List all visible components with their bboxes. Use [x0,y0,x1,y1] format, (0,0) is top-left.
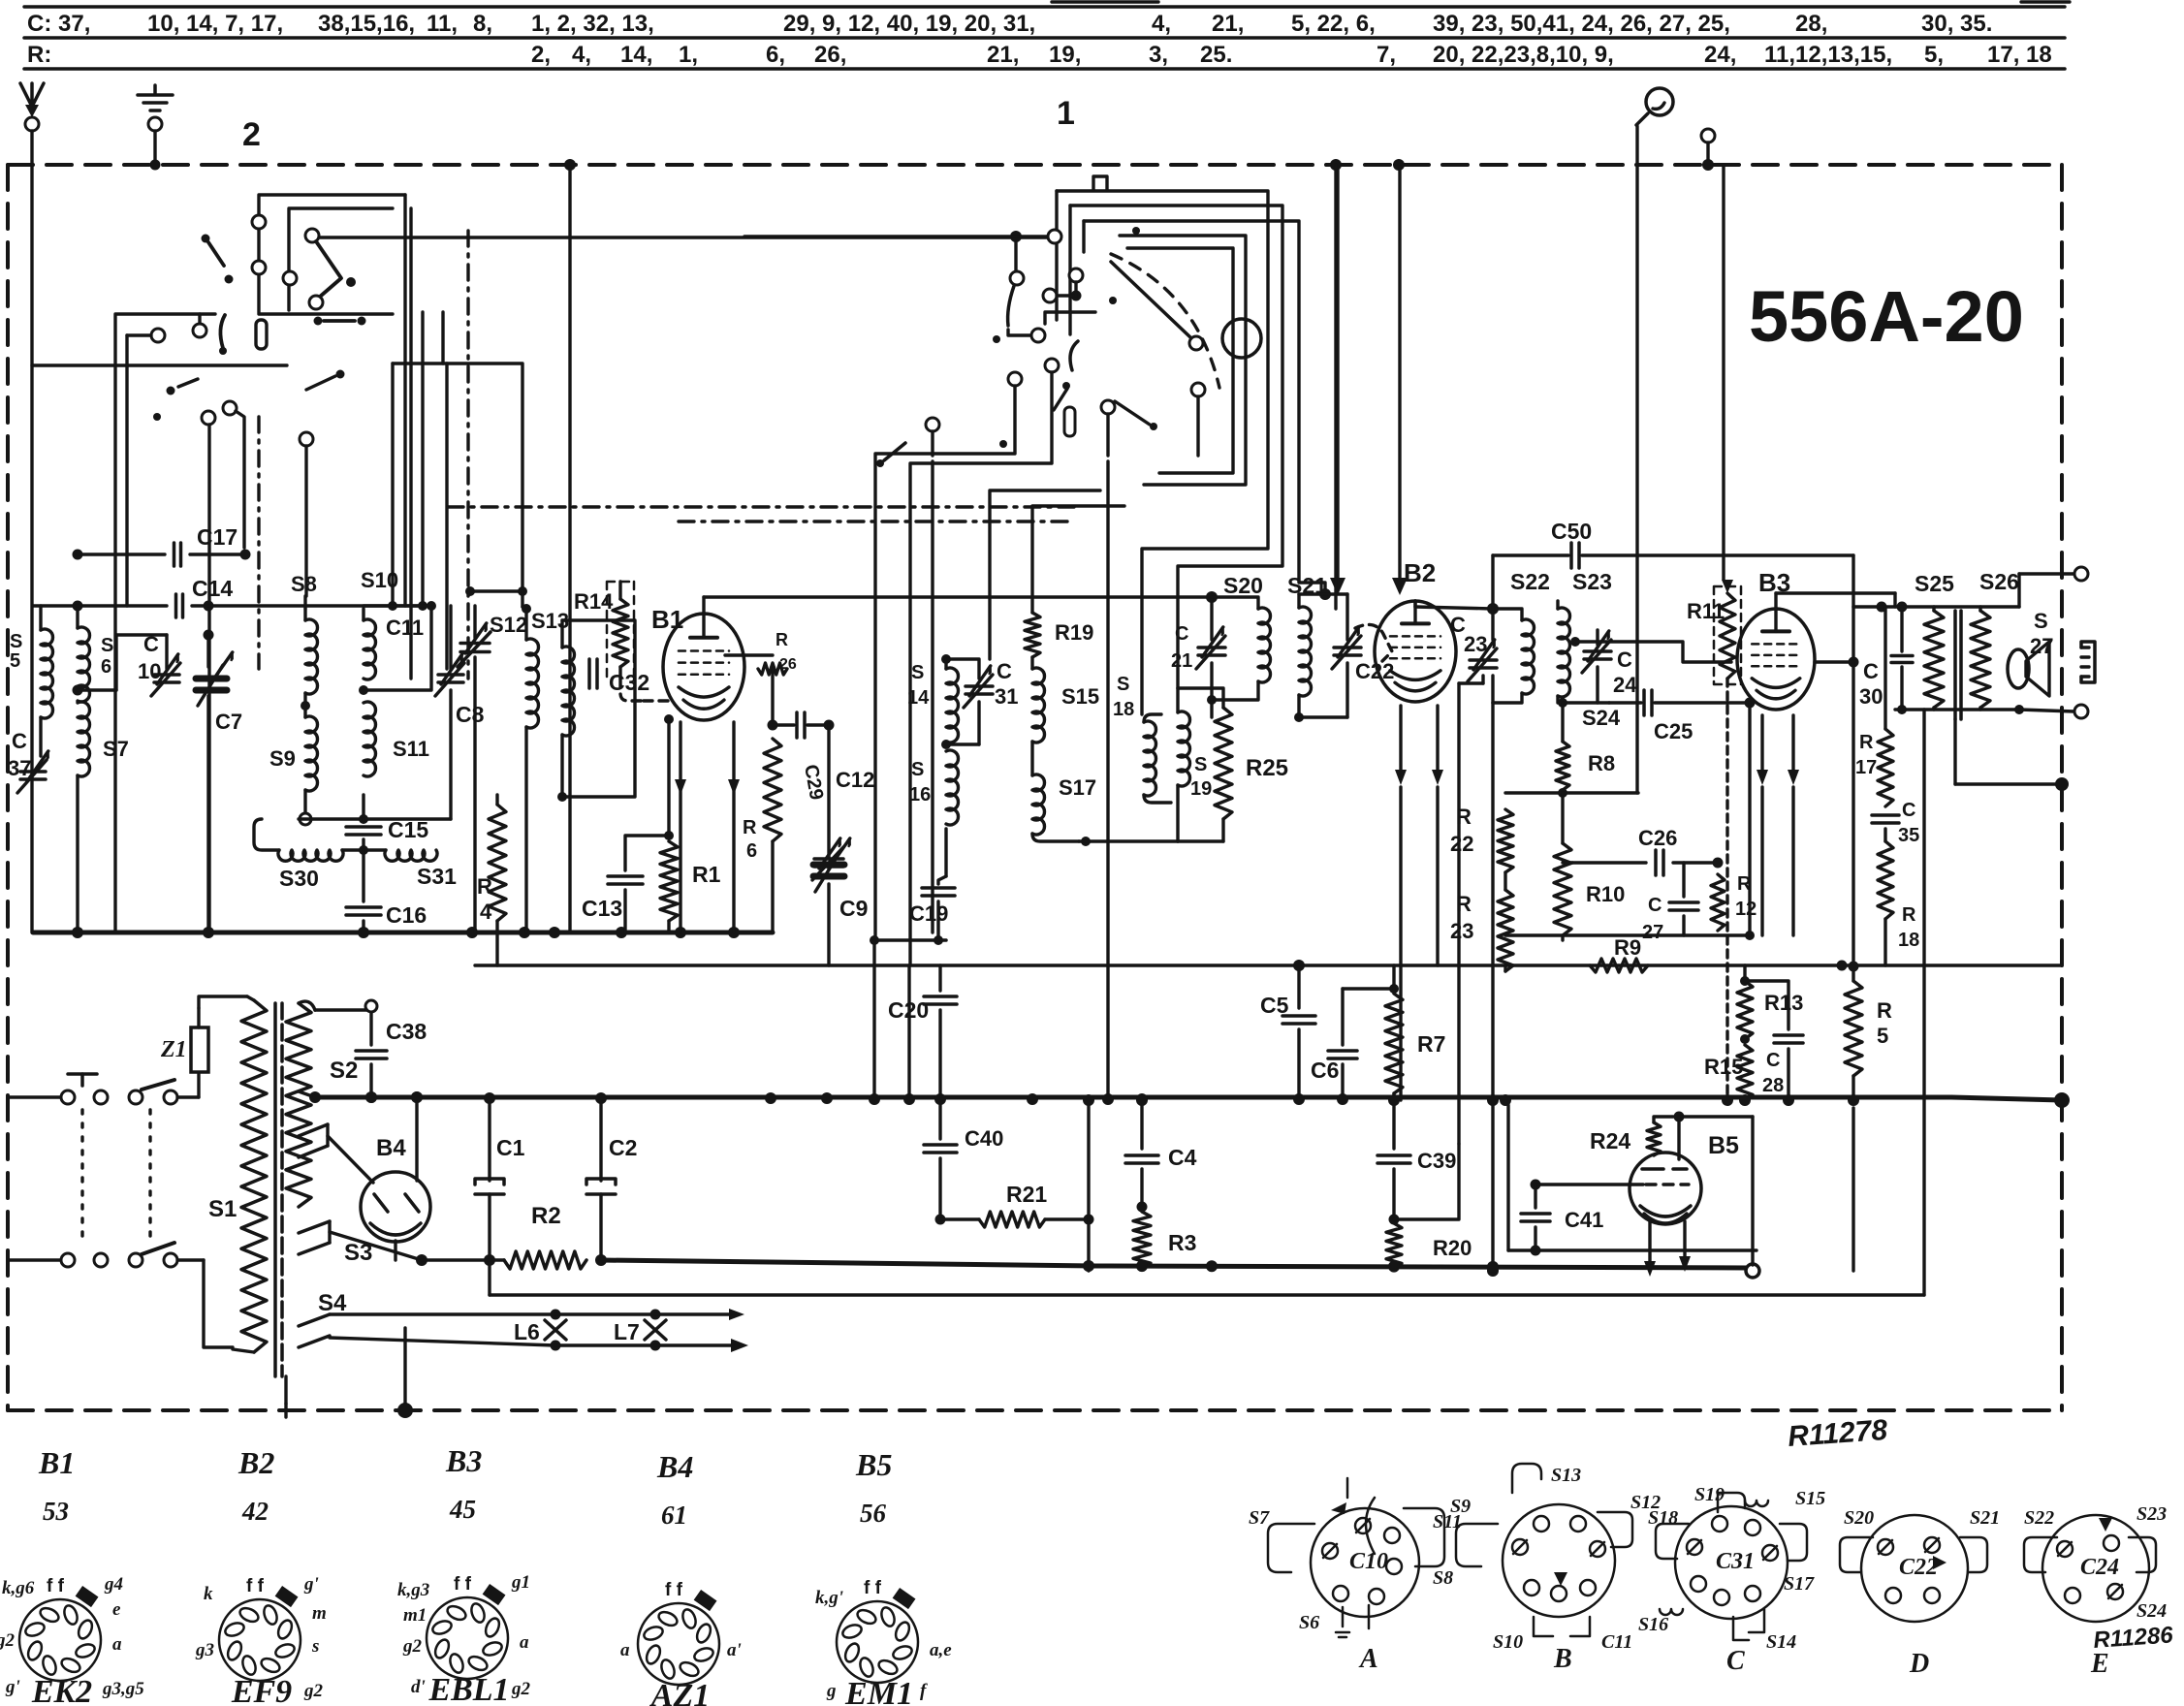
svg-text:S8: S8 [291,572,317,596]
svg-text:R21: R21 [1006,1182,1047,1207]
svg-text:S15: S15 [1061,684,1099,709]
svg-text:R: R [743,817,757,838]
svg-text:11,: 11, [427,11,458,37]
resistor R1 [660,841,678,921]
svg-text:20, 22,23,8,10, 9,: 20, 22,23,8,10, 9, [1433,42,1614,68]
svg-text:S: S [10,631,22,652]
capacitor C16 [362,850,364,901]
svg-text:1: 1 [1057,95,1075,132]
svg-text:s: s [311,1636,319,1657]
svg-text:C50: C50 [1551,519,1592,544]
svg-text:38,15,16,: 38,15,16, [318,11,415,37]
svg-text:Z1: Z1 [160,1037,187,1062]
svg-text:B4: B4 [376,1135,406,1161]
svg-text:g3: g3 [195,1640,214,1660]
coil S9 [305,716,318,791]
svg-text:R: R [1859,732,1874,753]
capacitor C4 [1125,1153,1158,1157]
svg-text:C15: C15 [388,817,428,842]
svg-text:S30: S30 [279,866,319,891]
svg-text:C24: C24 [2080,1555,2119,1580]
bottom heavy bus [601,1260,1095,1266]
svg-text:R3: R3 [1168,1230,1196,1255]
svg-text:1,: 1, [679,42,698,68]
index table of C and R numbers [24,5,2065,8]
svg-text:L7: L7 [614,1319,640,1344]
svg-text:R1: R1 [692,862,721,887]
svg-text:19: 19 [1190,778,1212,800]
svg-text:k: k [204,1584,213,1604]
svg-text:C: C [1648,895,1662,916]
power supply S1 transformer Z1 fuse B4 AZ1 rectifier C38 C1 C2 R2 S4 L6 L7 pilot lamps mains switch [8,1095,60,1098]
tube B2 [1375,601,1456,702]
capacitor C40 [924,1143,957,1147]
svg-text:C8: C8 [456,702,485,727]
svg-text:C26: C26 [1638,826,1677,850]
svg-text:6,: 6, [766,42,785,68]
svg-text:g2: g2 [303,1681,324,1701]
svg-text:S4: S4 [318,1290,347,1316]
svg-text:C13: C13 [582,896,622,921]
svg-text:10, 14, 7, 17,: 10, 14, 7, 17, [147,11,283,37]
svg-text:C22: C22 [1899,1555,1938,1580]
svg-text:C12: C12 [836,768,874,792]
svg-text:C38: C38 [386,1019,427,1044]
svg-text:EM1: EM1 [844,1676,913,1706]
tuning dial switch assembly [1057,191,1268,714]
svg-text:g4: g4 [104,1574,123,1595]
svg-text:R13: R13 [1764,991,1803,1015]
svg-text:R24: R24 [1590,1128,1630,1153]
svg-text:27: 27 [1642,922,1663,943]
svg-text:g': g' [5,1677,20,1697]
capacitor C32 [587,659,591,688]
svg-text:B1: B1 [38,1445,75,1480]
svg-text:S2: S2 [330,1058,358,1084]
svg-text:R8: R8 [1588,751,1615,775]
svg-text:R7: R7 [1417,1031,1445,1057]
resistor R9 [1590,959,1648,972]
svg-text:21,: 21, [987,42,1019,68]
resistor R7 [1385,994,1403,1093]
svg-text:17, 18: 17, 18 [1987,42,2052,68]
svg-text:R9: R9 [1614,935,1641,960]
svg-text:C32: C32 [609,670,649,695]
svg-text:C40: C40 [965,1126,1003,1151]
capacitor C41 [1534,1185,1536,1208]
svg-text:17: 17 [1855,757,1877,778]
svg-text:18: 18 [1113,699,1134,720]
svg-text:C2: C2 [609,1135,637,1160]
svg-text:23: 23 [1464,632,1487,656]
svg-text:C: C [12,729,27,753]
band switch assembly contacts [259,195,405,314]
svg-text:10: 10 [138,659,161,683]
coil S15 [1032,668,1045,742]
svg-text:EF9: EF9 [231,1674,292,1706]
svg-text:S17: S17 [1784,1573,1815,1595]
svg-text:g2: g2 [511,1679,531,1699]
resistor R25 [1215,708,1232,819]
svg-text:14: 14 [907,687,930,709]
svg-text:61: 61 [661,1501,687,1530]
svg-text:a': a' [727,1640,742,1660]
svg-text:S: S [1194,754,1207,775]
svg-text:f f: f f [47,1576,65,1596]
svg-text:C9: C9 [839,896,868,921]
svg-text:S6: S6 [1299,1612,1319,1633]
svg-text:26,: 26, [814,42,846,68]
svg-text:5: 5 [1877,1024,1888,1048]
svg-text:C41: C41 [1565,1208,1603,1232]
svg-text:C6: C6 [1311,1058,1339,1083]
svg-text:g2: g2 [402,1636,423,1657]
svg-text:30: 30 [1859,684,1883,709]
svg-text:m1: m1 [403,1605,427,1626]
ground terminal [153,85,157,93]
svg-text:25.: 25. [1200,42,1232,68]
svg-text:g1: g1 [511,1572,530,1593]
svg-text:C1: C1 [496,1135,525,1160]
svg-text:C: C [1863,659,1879,683]
svg-text:d': d' [411,1677,426,1697]
svg-text:53: 53 [43,1497,69,1526]
svg-text:C31: C31 [1716,1549,1755,1574]
svg-text:C14: C14 [192,576,233,601]
svg-text:2,: 2, [531,42,551,68]
svg-text:C: C [1902,800,1915,821]
svg-text:19,: 19, [1049,42,1081,68]
svg-text:C7: C7 [215,710,242,734]
coil pack B diagram [1503,1504,1615,1617]
svg-text:S: S [101,635,113,656]
svg-text:23: 23 [1450,919,1473,943]
svg-text:S24: S24 [2137,1600,2167,1622]
chassis border bottom dashed [8,1408,2062,1412]
svg-text:14,: 14, [620,42,652,68]
svg-text:S24: S24 [1582,706,1621,730]
svg-text:R25: R25 [1246,755,1288,781]
svg-text:28,: 28, [1795,11,1827,37]
svg-text:R15: R15 [1704,1055,1743,1079]
svg-text:a: a [520,1632,529,1653]
svg-text:S31: S31 [417,864,457,889]
svg-text:C10: C10 [1349,1549,1388,1574]
svg-text:16: 16 [909,784,931,806]
svg-text:S7: S7 [103,737,129,761]
svg-text:31: 31 [995,684,1018,709]
svg-text:g3,g5: g3,g5 [102,1679,144,1699]
svg-text:C: 37,: C: 37, [27,11,90,37]
svg-text:B5: B5 [855,1447,892,1482]
svg-text:6: 6 [746,840,757,862]
svg-text:e: e [112,1599,121,1620]
svg-text:C: C [143,632,159,656]
svg-text:B1: B1 [651,605,683,634]
svg-text:S18: S18 [1648,1507,1678,1529]
svg-text:35: 35 [1898,825,1919,846]
svg-text:k,g3: k,g3 [397,1580,429,1600]
svg-text:C25: C25 [1654,719,1693,743]
capacitor C9 [813,862,844,869]
svg-text:S25: S25 [1915,571,1954,596]
svg-text:S22: S22 [1510,569,1550,594]
coil S11 [364,702,376,776]
antenna terminal [20,83,44,109]
svg-text:4,: 4, [1152,11,1171,37]
svg-text:1, 2, 32, 13,: 1, 2, 32, 13, [531,11,654,37]
svg-text:7,: 7, [1377,42,1396,68]
svg-text:S22: S22 [2024,1507,2054,1529]
svg-text:a,e: a,e [930,1640,952,1660]
svg-text:556A-20: 556A-20 [1749,276,2024,357]
svg-text:39, 23, 50,41, 24, 26, 27, 25,: 39, 23, 50,41, 24, 26, 27, 25, [1433,11,1730,37]
svg-text:S: S [911,759,924,780]
svg-text:R: R [1456,805,1472,829]
resistor R13 [1737,981,1753,1039]
coil S8 [305,619,318,694]
svg-text:R11: R11 [1687,599,1725,623]
svg-text:S: S [911,662,924,683]
resistor R8 [1556,742,1569,790]
wires from band switch [223,401,237,415]
svg-text:C: C [997,659,1012,683]
main HT bus [315,1095,1951,1100]
svg-text:S19: S19 [1694,1484,1725,1505]
resistor R19 [1025,613,1040,657]
svg-text:EK2: EK2 [31,1674,92,1706]
svg-text:R: R [1456,892,1472,916]
bottom bus dots [1083,1260,1094,1272]
svg-text:S15: S15 [1795,1488,1825,1509]
svg-text:B: B [1553,1644,1572,1674]
capacitor C6 [1328,1049,1357,1053]
svg-text:8,: 8, [473,11,492,37]
svg-text:C: C [1175,623,1188,645]
svg-text:C11: C11 [1601,1631,1632,1653]
tube B3 [1737,609,1815,710]
phones jack [1646,88,1673,115]
svg-text:R: R [1877,998,1892,1023]
svg-text:C: C [1617,648,1632,672]
svg-text:a: a [620,1640,630,1660]
svg-text:R2: R2 [531,1203,561,1229]
svg-text:21,: 21, [1212,11,1244,37]
svg-text:C4: C4 [1168,1145,1197,1170]
svg-text:5: 5 [10,650,20,672]
svg-text:S20: S20 [1844,1507,1874,1529]
chassis border block2 top dashed [8,163,2055,167]
svg-text:5,: 5, [1924,42,1944,68]
capacitor C7 [206,635,209,667]
coil pack C diagram [1675,1506,1788,1619]
svg-text:S17: S17 [1059,775,1096,800]
svg-text:S: S [1117,674,1129,695]
svg-text:S13: S13 [1551,1465,1581,1486]
svg-text:S14: S14 [1766,1631,1796,1653]
svg-text:21: 21 [1171,650,1192,672]
svg-text:37: 37 [8,756,31,780]
svg-text:S11: S11 [393,737,429,761]
coil S31 [385,850,437,861]
svg-text:L6: L6 [514,1319,540,1344]
svg-text:42: 42 [241,1497,269,1526]
svg-text:S23: S23 [2137,1503,2167,1525]
svg-text:R20: R20 [1433,1236,1472,1260]
svg-text:18: 18 [1898,930,1919,951]
svg-text:5, 22, 6,: 5, 22, 6, [1291,11,1376,37]
svg-text:B2: B2 [1404,558,1436,587]
svg-text:E: E [2090,1649,2109,1679]
svg-text:30, 35.: 30, 35. [1921,11,1992,37]
svg-text:S10: S10 [1493,1631,1523,1653]
svg-text:S23: S23 [1572,569,1612,594]
B5 magic eye EM1 with R24 C41 [1506,1105,1509,1250]
svg-text:56: 56 [860,1499,887,1528]
svg-text:C11: C11 [386,616,424,640]
svg-text:S: S [2034,609,2048,633]
svg-text:S10: S10 [361,568,398,592]
svg-text:S16: S16 [1638,1614,1668,1635]
resistor R20 [1386,1223,1402,1268]
capacitor C20 [924,995,957,998]
resistor R21 [979,1212,1045,1227]
svg-text:g2: g2 [0,1630,16,1651]
svg-text:11,12,13,15,: 11,12,13,15, [1764,42,1892,68]
svg-text:a: a [112,1634,122,1655]
svg-text:B3: B3 [445,1443,482,1478]
coil S17 [1032,774,1045,835]
svg-text:g': g' [303,1574,319,1595]
svg-text:R19: R19 [1055,620,1093,645]
coil pack E diagram [2042,1515,2149,1622]
svg-text:S26: S26 [1979,569,2019,594]
resistor R10 [1554,843,1571,935]
svg-text:29, 9, 12, 40, 19, 20, 31,: 29, 9, 12, 40, 19, 20, 31, [783,11,1035,37]
svg-text:R: R [1902,904,1916,926]
svg-text:R: R [477,874,492,899]
svg-text:k,g6: k,g6 [2,1578,35,1598]
svg-text:k,g': k,g' [815,1588,843,1608]
svg-text:22: 22 [1450,832,1473,856]
svg-text:4: 4 [480,900,492,924]
node on dashed top [564,159,576,171]
svg-text:R:: R: [27,42,51,68]
svg-text:S11: S11 [1433,1511,1462,1532]
svg-text:6: 6 [101,656,111,678]
svg-text:R11286: R11286 [2093,1622,2175,1654]
svg-text:B4: B4 [656,1449,693,1484]
svg-text:3,: 3, [1149,42,1168,68]
svg-text:m: m [312,1603,327,1624]
svg-text:R10: R10 [1586,882,1625,906]
svg-text:B2: B2 [237,1445,274,1480]
coil pack D diagram [1861,1515,1968,1622]
svg-text:C5: C5 [1260,993,1289,1018]
svg-text:S7: S7 [1249,1507,1270,1529]
solid bottom frame [490,1293,1924,1296]
svg-text:S8: S8 [1433,1567,1453,1589]
svg-text:D: D [1909,1649,1929,1679]
svg-text:C39: C39 [1417,1149,1456,1173]
capacitor C39 [1377,1153,1410,1157]
svg-text:C16: C16 [386,902,427,928]
svg-text:28: 28 [1762,1075,1784,1096]
coil S7 [78,702,90,776]
capacitor C5 [1282,1014,1315,1018]
middle IF coils S14 S16 C31 C19 R19 S15 S17 S18 S19 R25 C21 S20 S21 C22 C5 C6 R7 C20 C40 R21 C4 R3 C39 R20 [475,964,2062,966]
svg-text:C17: C17 [197,524,237,550]
svg-text:B5: B5 [1708,1132,1739,1159]
svg-text:f f: f f [665,1580,683,1600]
svg-text:4,: 4, [572,42,591,68]
svg-text:f f: f f [246,1576,265,1596]
svg-text:12: 12 [1735,899,1757,920]
capacitor C29 [795,712,799,738]
svg-text:f f: f f [864,1578,882,1598]
svg-text:C: C [1766,1050,1780,1071]
node on dashed top 2 [1330,159,1342,171]
svg-text:2: 2 [242,116,261,153]
wires from dial assembly down [568,167,571,932]
svg-text:g: g [826,1681,837,1701]
wire antenna down [30,131,33,932]
phones terminal [1701,129,1715,142]
resistor R15 [1737,1045,1753,1100]
svg-text:24,: 24, [1704,42,1736,68]
chassis border left dashed [6,165,10,1410]
svg-text:f f: f f [454,1574,472,1595]
svg-text:AZ1: AZ1 [649,1678,710,1706]
svg-text:S12: S12 [490,613,527,637]
svg-text:26: 26 [779,656,797,673]
capacitor C19 [922,886,955,890]
chassis border right dashed [2060,165,2064,1410]
svg-text:C19: C19 [909,901,948,926]
svg-text:S1: S1 [208,1196,237,1222]
svg-text:A: A [1358,1644,1378,1674]
svg-text:S21: S21 [1970,1507,2000,1529]
svg-text:24: 24 [1613,673,1637,697]
capacitor C13 [625,836,669,870]
svg-text:S20: S20 [1223,573,1263,598]
bus junction dots [365,1091,377,1103]
left RF coils S5-S11 C37 C10 C7 C14 C17 C15 C16 S30 S31 R4 [73,550,83,560]
coil pack A diagram [1311,1508,1419,1617]
svg-text:45: 45 [449,1495,476,1524]
capacitor C25 [1642,690,1646,715]
svg-text:C: C [1726,1646,1745,1676]
svg-text:EBL1: EBL1 [427,1672,509,1706]
capacitor C15 [346,825,381,829]
coil S30 [362,839,364,850]
resistor R3 [1133,1212,1151,1268]
svg-text:R: R [775,630,788,649]
svg-text:S9: S9 [269,746,296,771]
